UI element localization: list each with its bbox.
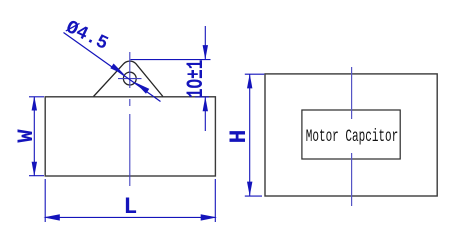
svg-text:1O±1: 1O±1 (183, 60, 209, 99)
front view centerline (351, 67, 353, 206)
leader arrow lower (135, 82, 149, 93)
label plate (302, 110, 400, 159)
10±1 dimension (131, 26, 211, 131)
W arrow top (32, 96, 37, 111)
W arrow bottom (32, 162, 37, 177)
10±1 arrow top (203, 45, 208, 60)
W dimension (29, 97, 44, 176)
leader line for hole (64, 33, 161, 102)
L dimension (45, 179, 215, 222)
capacitor body (front view) (265, 74, 437, 196)
svg-text:H: H (226, 130, 252, 144)
mounting bracket (94, 61, 163, 96)
hole horizontal centerline (118, 78, 142, 80)
10±1 arrow bottom (203, 97, 208, 112)
svg-text:L: L (123, 194, 137, 220)
capacitor body (side view) (45, 97, 215, 176)
L arrow left (44, 214, 60, 220)
svg-text:Motor Capcitor: Motor Capcitor (306, 127, 399, 147)
svg-text:W: W (14, 129, 39, 143)
hole circle Ø4.5 (123, 72, 136, 85)
leader arrow upper (110, 64, 124, 75)
H arrow bottom (247, 182, 252, 197)
hole vertical centerline (129, 52, 131, 186)
H arrow top (247, 74, 252, 89)
H dimension (245, 74, 264, 196)
L arrow right (201, 214, 217, 220)
